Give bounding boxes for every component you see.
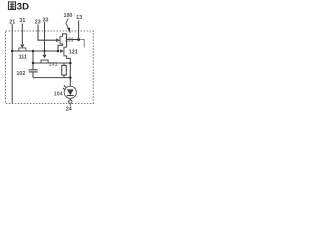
svg-text:13: 13 bbox=[76, 15, 82, 21]
svg-text:3D: 3D bbox=[17, 2, 29, 13]
svg-text:131: 131 bbox=[65, 37, 74, 43]
svg-text:100: 100 bbox=[64, 13, 73, 19]
svg-text:102: 102 bbox=[16, 71, 25, 77]
svg-text:33: 33 bbox=[43, 18, 49, 24]
svg-text:111: 111 bbox=[19, 55, 27, 61]
svg-text:31: 31 bbox=[19, 18, 25, 24]
svg-text:24: 24 bbox=[66, 107, 72, 113]
svg-text:121: 121 bbox=[69, 50, 78, 56]
svg-text:104: 104 bbox=[54, 91, 63, 97]
